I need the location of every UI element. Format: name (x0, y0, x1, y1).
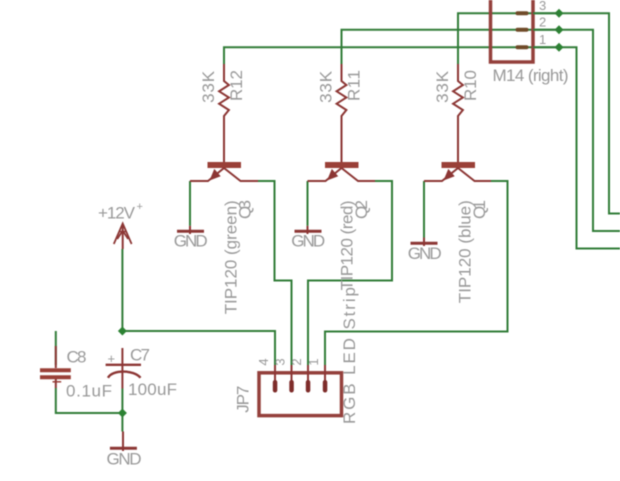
transistor Q2 (308, 162, 376, 181)
junction GND node at C7 (118, 409, 127, 418)
svg-text:M14 (right): M14 (right) (493, 66, 569, 85)
capacitor C8 (40, 346, 71, 388)
wire Q1 emitter to GND (423, 181, 425, 238)
wire Q1 collector to JP7 pin 1 (325, 181, 508, 365)
svg-text:33K: 33K (433, 70, 452, 103)
transistor Q1 (424, 162, 491, 181)
ground Q1 (408, 238, 442, 263)
capacitor C7 (106, 348, 141, 389)
wire +12V rail to JP7 pin 4 (122, 249, 275, 365)
ground Q2 (291, 226, 325, 251)
wire C7 bottom to GND node (121, 389, 123, 432)
transistor Q3 (190, 162, 258, 181)
wire Q2 emitter to GND (307, 181, 309, 226)
supply +12V (98, 201, 143, 249)
junction +12V rail at C7 (118, 327, 127, 336)
svg-text:33K: 33K (199, 70, 218, 103)
svg-text:C7: C7 (130, 346, 150, 365)
svg-text:Q2: Q2 (352, 200, 371, 219)
svg-text:Q3: Q3 (236, 200, 255, 219)
resistor R12 (219, 64, 229, 162)
svg-text:GND: GND (408, 244, 442, 263)
svg-text:+: + (108, 351, 116, 366)
wire net R11 to M14 pin 2 and off right edge (342, 30, 620, 231)
svg-text:GND: GND (174, 231, 208, 250)
ground bottom at C7 (107, 432, 142, 469)
wire +12V rail to C8 (55, 331, 57, 365)
svg-text:R10: R10 (461, 70, 480, 101)
ground Q3 (174, 226, 208, 251)
svg-text:4: 4 (256, 358, 271, 365)
wire C8 bottom to GND node (56, 388, 123, 413)
connector JP7 (259, 365, 342, 416)
svg-text:100uF: 100uF (128, 380, 177, 399)
svg-text:+12V: +12V (98, 204, 136, 223)
resistor R11 (337, 64, 347, 162)
svg-text:RGB LED Strip: RGB LED Strip (340, 287, 359, 424)
junction on M14 pin 1 (555, 43, 564, 52)
svg-text:1: 1 (539, 32, 546, 47)
svg-text:3: 3 (273, 358, 288, 365)
svg-text:1: 1 (306, 358, 321, 365)
svg-text:2: 2 (289, 358, 304, 365)
svg-text:GND: GND (107, 449, 142, 468)
connector M14 (491, 0, 560, 62)
svg-text:GND: GND (291, 231, 325, 250)
wire Q3 collector to JP7 pin 3 (258, 181, 292, 365)
svg-text:JP7: JP7 (234, 386, 253, 413)
svg-text:C8: C8 (67, 348, 87, 367)
wire net R12 to M14 pin 1 and off right edge (224, 47, 620, 248)
svg-text:+: + (137, 201, 143, 213)
svg-text:33K: 33K (317, 70, 336, 103)
svg-text:Q1: Q1 (470, 200, 489, 219)
wire Q3 emitter to GND (189, 181, 191, 226)
svg-text:R12: R12 (227, 70, 246, 101)
svg-text:R11: R11 (345, 70, 364, 101)
svg-text:0.1uF: 0.1uF (66, 382, 112, 401)
wire Q2 collector to JP7 pin 2 (308, 181, 392, 365)
resistor R10 (453, 64, 463, 162)
wire net R10 to M14 pin 3 and off right edge (458, 13, 620, 213)
svg-text:3: 3 (539, 0, 546, 13)
junction on M14 pin 2 (555, 25, 564, 34)
junction on M14 pin 3 (555, 9, 564, 18)
svg-text:2: 2 (539, 15, 546, 30)
